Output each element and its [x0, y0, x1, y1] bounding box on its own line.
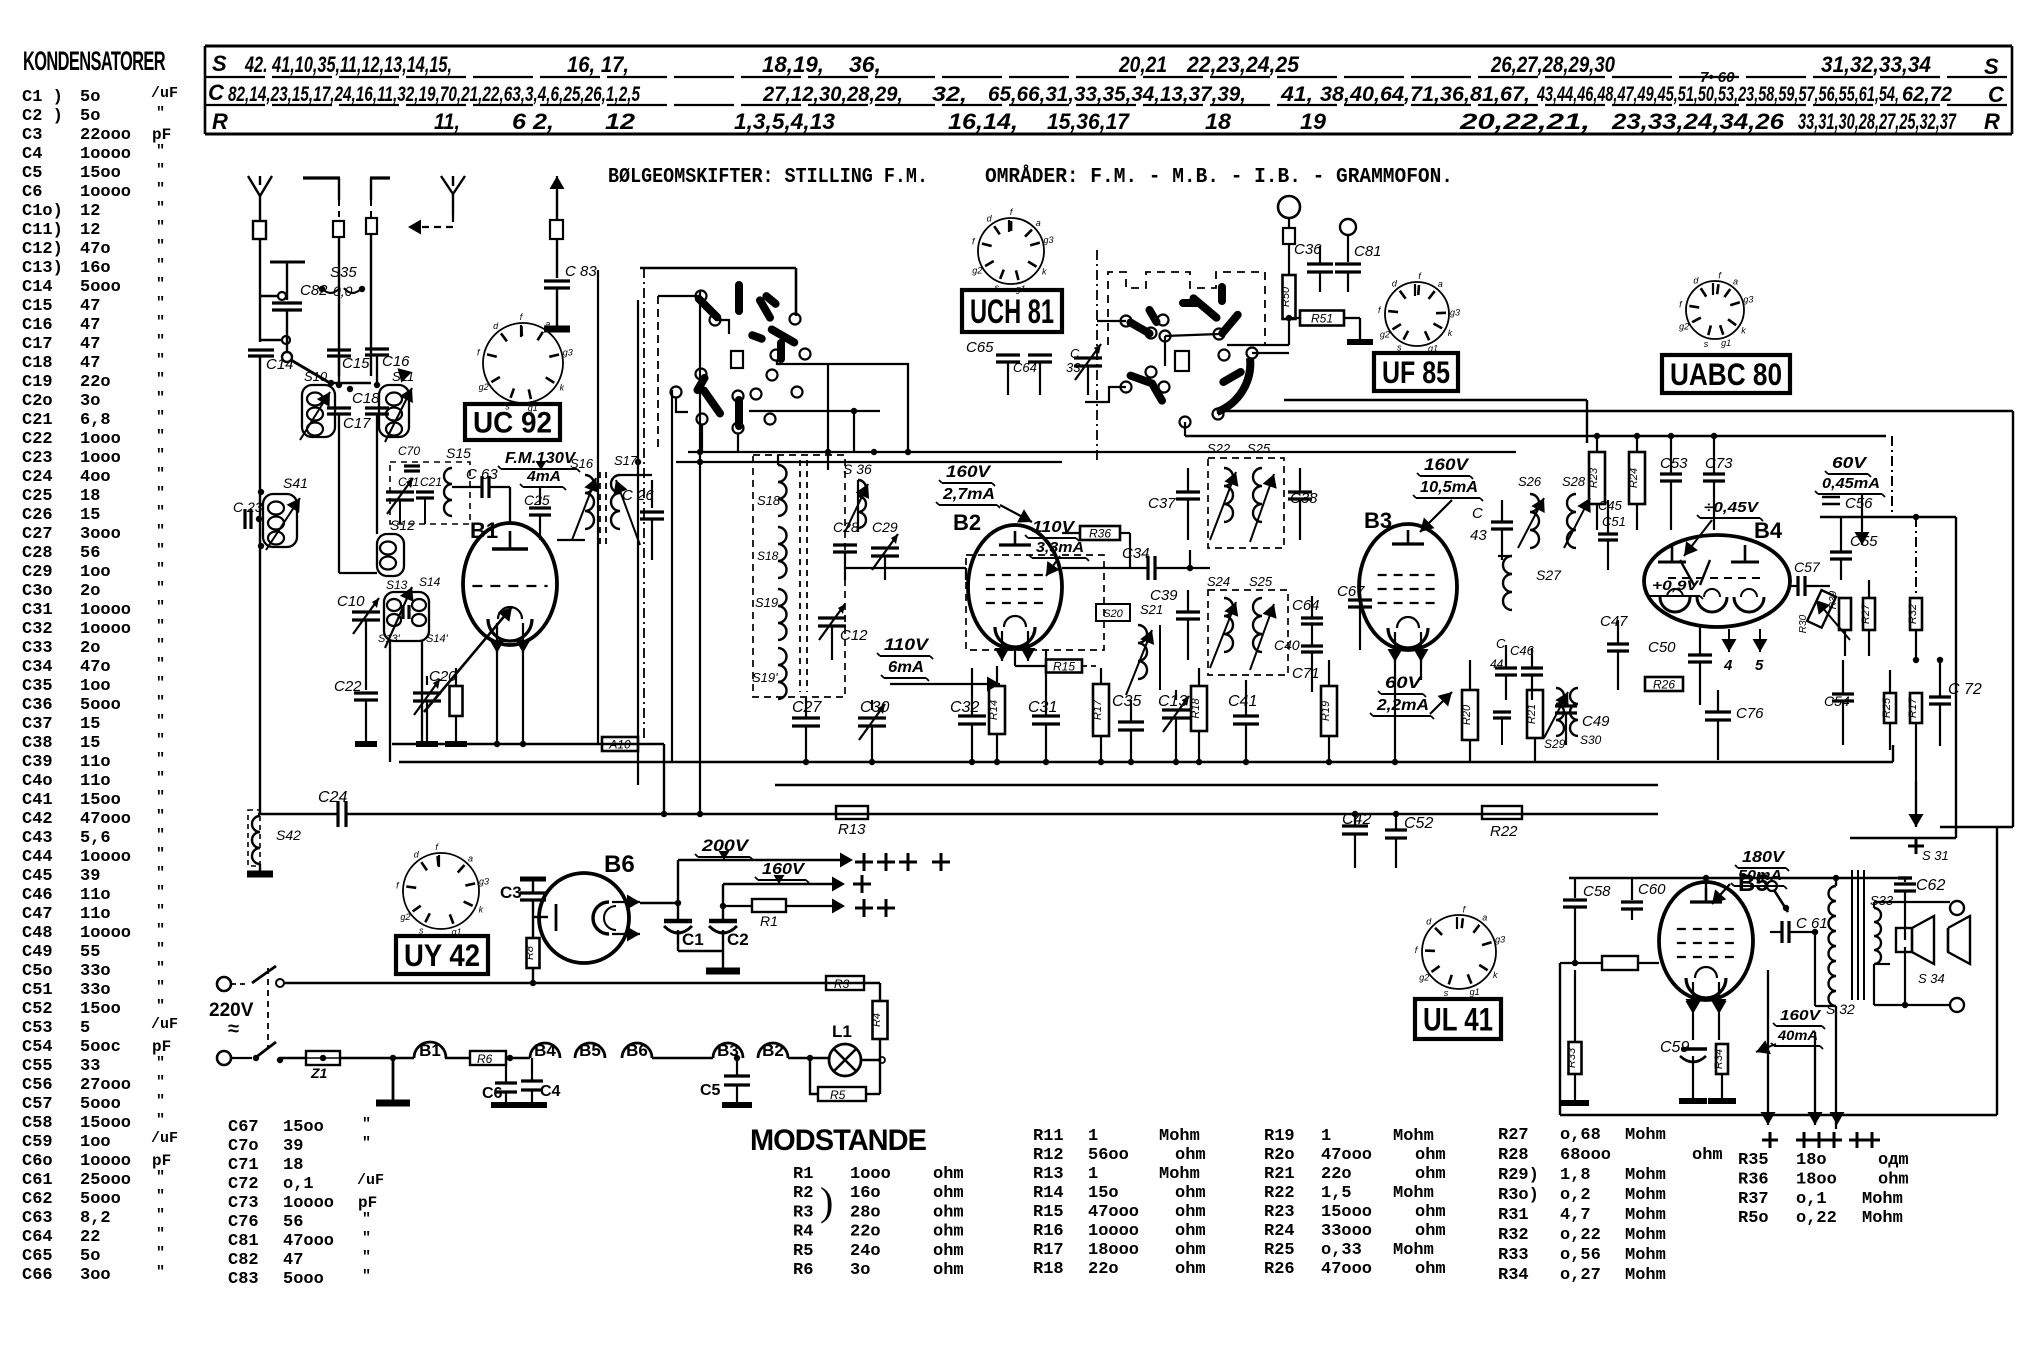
capacitor C52 — [1385, 814, 1433, 868]
svg-text:22: 22 — [80, 1228, 100, 1247]
resistor R17b vertical — [1907, 693, 1922, 781]
svg-text:Mohm: Mohm — [1159, 1165, 1200, 1184]
svg-text:C39: C39 — [22, 753, 53, 772]
svg-text:47: 47 — [80, 297, 100, 316]
svg-text:22o: 22o — [80, 373, 111, 392]
svg-text:": " — [156, 485, 165, 502]
annotation 60V 0,45mA — [1815, 455, 1885, 545]
svg-text:33o: 33o — [80, 962, 111, 981]
heater B2 bump — [758, 1043, 788, 1058]
svg-text:S42: S42 — [276, 827, 301, 843]
table row letters — [208, 51, 2005, 134]
coil S26 — [1518, 474, 1545, 548]
svg-text:Mohm: Mohm — [1393, 1241, 1434, 1260]
capacitor C31 — [1028, 649, 1060, 762]
svg-text:1oooo: 1oooo — [283, 1194, 334, 1213]
capacitor C15 — [327, 350, 370, 385]
svg-text:g3: g3 — [479, 876, 489, 886]
svg-text:": " — [156, 1093, 165, 1110]
svg-text:11o: 11o — [80, 753, 111, 772]
tube socket UF85 — [1385, 282, 1449, 346]
svg-text:15oo: 15oo — [283, 1118, 324, 1137]
svg-text:16o: 16o — [80, 259, 111, 278]
tube B6 (UY42) rectifier — [533, 851, 640, 963]
table row S numbers — [244, 52, 1931, 77]
svg-text:C21: C21 — [420, 475, 442, 489]
svg-text:R27: R27 — [1498, 1126, 1529, 1145]
svg-text:S25: S25 — [1249, 574, 1273, 589]
coil S36 — [843, 461, 872, 532]
capacitor C40 — [1274, 624, 1323, 653]
svg-text:47o: 47o — [80, 658, 111, 677]
svg-text:15: 15 — [80, 506, 100, 525]
svg-text:47: 47 — [80, 335, 100, 354]
svg-text:+0,9V: +0,9V — [1652, 577, 1700, 593]
svg-text:R22: R22 — [1490, 823, 1518, 840]
svg-text:1ooo: 1ooo — [80, 430, 121, 449]
svg-text:": " — [156, 295, 165, 312]
svg-text:": " — [156, 1188, 165, 1205]
capacitor C18 — [352, 382, 389, 534]
svg-text:C66: C66 — [22, 1266, 53, 1285]
svg-text:": " — [156, 1207, 165, 1224]
annotation 180V 50mA — [1712, 849, 1789, 904]
svg-text:C24: C24 — [318, 789, 347, 806]
svg-text:UCH 81: UCH 81 — [970, 293, 1054, 331]
table frame S/C/R rows — [205, 46, 2012, 134]
svg-text:OMRÅDER: F.M. - M.B. - I.B. -: OMRÅDER: F.M. - M.B. - I.B. - GRAMMOFON. — [985, 164, 1453, 189]
svg-text:C1: C1 — [682, 930, 704, 949]
capacitor C23 — [233, 499, 263, 529]
svg-text:": " — [156, 466, 165, 483]
svg-text:12: 12 — [80, 221, 100, 240]
svg-text:R17: R17 — [1907, 697, 1919, 718]
antenna connector 1 — [253, 221, 266, 239]
wire C14 to bus — [259, 357, 261, 814]
svg-text:60V: 60V — [1385, 673, 1423, 692]
svg-text:): ) — [820, 1179, 833, 1224]
svg-text:S 31: S 31 — [1922, 848, 1949, 863]
svg-text:47o: 47o — [80, 240, 111, 259]
svg-text:S21: S21 — [1140, 602, 1163, 617]
svg-text:47ooo: 47ooo — [80, 810, 131, 829]
svg-text:ohm: ohm — [933, 1242, 964, 1261]
svg-text:C1 ): C1 ) — [22, 88, 63, 107]
heater B6 bump — [622, 1043, 652, 1058]
svg-text:5ooo: 5ooo — [80, 278, 121, 297]
svg-text:S15: S15 — [446, 445, 471, 461]
svg-text:C29: C29 — [22, 563, 53, 582]
svg-text:g1: g1 — [1721, 338, 1731, 348]
table row R numbers — [434, 109, 1957, 134]
svg-text:": " — [156, 713, 165, 730]
tube socket UC92 — [483, 323, 563, 403]
resistor R26 box — [1645, 677, 1683, 691]
svg-text:C31: C31 — [1028, 699, 1057, 716]
phono input terminal — [1278, 196, 1300, 262]
svg-text:C63: C63 — [22, 1209, 53, 1228]
svg-text:ohm: ohm — [933, 1261, 964, 1280]
svg-text:40mA: 40mA — [1777, 1027, 1818, 1043]
svg-text:C 61: C 61 — [1796, 915, 1828, 932]
capacitor C81 schematic — [1335, 243, 1382, 292]
AVC dashed feed with + arrow — [1908, 517, 1924, 854]
svg-text:R3: R3 — [834, 977, 850, 991]
svg-text:47: 47 — [283, 1251, 303, 1270]
svg-text:g3: g3 — [1495, 935, 1505, 945]
svg-text:32,: 32, — [932, 83, 967, 106]
svg-text:47ooo: 47ooo — [283, 1232, 334, 1251]
svg-text:5ooo: 5ooo — [80, 1190, 121, 1209]
wire B6 anode to C1 node — [640, 900, 681, 906]
svg-text:o,22: o,22 — [1796, 1209, 1837, 1228]
svg-text:R2o: R2o — [1264, 1146, 1295, 1165]
resistor R32 vertical — [1907, 598, 1922, 663]
svg-text:": " — [156, 1226, 165, 1243]
svg-text:15ooo: 15ooo — [80, 1114, 131, 1133]
capacitor C63 series — [452, 466, 510, 524]
svg-text:1: 1 — [1088, 1127, 1098, 1146]
coil S11 — [379, 368, 414, 442]
svg-text:23,33,24,34,26: 23,33,24,34,26 — [1611, 109, 1785, 134]
wafer switch S2 cluster — [1085, 250, 1289, 460]
svg-text:38,40,64,71,36,81,67,: 38,40,64,71,36,81,67, — [1320, 83, 1530, 106]
svg-text:C72: C72 — [228, 1175, 259, 1194]
svg-text:R: R — [212, 109, 228, 134]
svg-text:ohm: ohm — [1175, 1260, 1206, 1279]
svg-text:C56: C56 — [1845, 495, 1873, 512]
svg-text:C: C — [1988, 82, 2005, 107]
svg-text:": " — [156, 257, 165, 274]
tube B1 (UC92) — [463, 523, 557, 645]
svg-text:": " — [156, 656, 165, 673]
svg-text:C7o: C7o — [228, 1137, 259, 1156]
svg-text:R34: R34 — [1498, 1266, 1529, 1285]
trimmer C29 — [871, 519, 899, 580]
volume potentiometer R39 — [1798, 590, 1850, 640]
wire R36 — [1062, 533, 1130, 568]
resistor R36 box — [1080, 526, 1120, 540]
svg-text:C23: C23 — [22, 449, 53, 468]
svg-text:4: 4 — [1723, 657, 1733, 674]
svg-text:5ooc: 5ooc — [80, 1038, 121, 1057]
svg-text:o,2: o,2 — [1560, 1186, 1591, 1205]
heater B3 bump — [713, 1043, 743, 1058]
svg-text:C43: C43 — [22, 829, 53, 848]
svg-text:": " — [156, 922, 165, 939]
svg-text:S14: S14 — [419, 575, 441, 589]
svg-text:": " — [156, 504, 165, 521]
svg-text:56: 56 — [283, 1213, 303, 1232]
svg-text:3o: 3o — [850, 1261, 870, 1280]
ground mid chain — [376, 1055, 410, 1103]
trimmer C30 — [858, 699, 889, 762]
text: capacitor value list C1-C66 — [22, 85, 178, 1285]
svg-text:39: 39 — [283, 1137, 303, 1156]
cathode parts C59 R36 — [1660, 992, 1736, 1101]
svg-text:ohm: ohm — [1175, 1146, 1206, 1165]
svg-text:C35: C35 — [1112, 693, 1141, 710]
svg-text:/uF: /uF — [151, 1130, 178, 1147]
svg-text:C65: C65 — [22, 1247, 53, 1266]
svg-text:15oo: 15oo — [80, 1000, 121, 1019]
resistor R13 on bus — [836, 806, 868, 838]
svg-text:22o: 22o — [850, 1223, 881, 1242]
svg-text:3ooo: 3ooo — [80, 525, 121, 544]
capacitor C45 C51 — [1598, 498, 1626, 570]
svg-text:1oo: 1oo — [80, 563, 111, 582]
svg-text:": " — [156, 428, 165, 445]
svg-text:41,: 41, — [1280, 83, 1313, 106]
svg-text:o,22: o,22 — [1560, 1226, 1601, 1245]
svg-text:C70: C70 — [398, 444, 420, 458]
plus marks +++ — [855, 853, 950, 871]
svg-text:C 23: C 23 — [233, 499, 263, 515]
svg-text:C18: C18 — [352, 390, 380, 407]
svg-text:24o: 24o — [850, 1242, 881, 1261]
svg-text:C3: C3 — [500, 883, 522, 902]
svg-text:": " — [362, 1249, 371, 1266]
svg-text:C36: C36 — [22, 696, 53, 715]
svg-text:26,27,28,29,30: 26,27,28,29,30 — [1490, 52, 1615, 77]
svg-text:≈: ≈ — [228, 1018, 239, 1040]
svg-text:S25: S25 — [1247, 441, 1271, 456]
capacitor C64b — [1013, 355, 1052, 395]
svg-text:160V: 160V — [1780, 1007, 1822, 1024]
capacitor C43 — [1470, 500, 1513, 560]
svg-text:R26: R26 — [1264, 1260, 1295, 1279]
svg-text:k: k — [560, 383, 565, 393]
capacitor C1 electrolytic — [664, 903, 704, 951]
capacitor C56 — [1822, 495, 1873, 512]
svg-text:7• 60: 7• 60 — [1700, 69, 1735, 86]
svg-text:R31: R31 — [1498, 1206, 1529, 1225]
resistor R4 vertical — [871, 1001, 888, 1094]
svg-text:a: a — [1482, 913, 1487, 923]
svg-text:": " — [156, 941, 165, 958]
svg-text:22,23,24,25: 22,23,24,25 — [1186, 52, 1300, 77]
svg-text:C: C — [1496, 636, 1506, 651]
svg-text:47ooo: 47ooo — [1088, 1203, 1139, 1222]
capacitor C4 — [517, 1058, 561, 1105]
capacitor C48 — [1493, 712, 1511, 745]
svg-text:C55: C55 — [22, 1057, 53, 1076]
main bus with C24 — [258, 789, 1658, 827]
svg-text:R8: R8 — [524, 945, 536, 960]
svg-text:C37: C37 — [22, 715, 53, 734]
resistor R5 bypass — [810, 1058, 880, 1102]
svg-text:15oo: 15oo — [80, 164, 121, 183]
svg-text:C16: C16 — [382, 353, 410, 370]
annotation 60V 2,2mA — [1370, 673, 1452, 719]
svg-text:4,7: 4,7 — [1560, 1206, 1591, 1225]
resistor R17 vertical — [1092, 668, 1109, 762]
text: resistor table R11-R18 — [1033, 1127, 1206, 1279]
svg-text:1oooo: 1oooo — [80, 848, 131, 867]
trimmer C10 and capacitor C22 column — [334, 593, 380, 744]
svg-text:C25: C25 — [22, 487, 53, 506]
tone switch and C61 — [1767, 881, 1836, 1006]
svg-text:C46: C46 — [22, 886, 53, 905]
svg-text:C65: C65 — [966, 339, 994, 356]
anode top line B5 — [1569, 875, 1905, 888]
svg-text:1,5: 1,5 — [1321, 1184, 1352, 1203]
svg-text:5: 5 — [1755, 657, 1764, 674]
svg-text:": " — [156, 789, 165, 806]
coils S13 S14 — [378, 575, 449, 762]
svg-text:": " — [156, 1245, 165, 1262]
svg-text:": " — [156, 219, 165, 236]
resistor R8 vertical — [524, 900, 540, 986]
svg-text:C57: C57 — [22, 1095, 53, 1114]
svg-text:180V: 180V — [1742, 849, 1785, 866]
svg-text:Mohm: Mohm — [1625, 1166, 1666, 1185]
svg-text:C33: C33 — [22, 639, 53, 658]
svg-text:R3: R3 — [793, 1203, 813, 1222]
svg-text:22o: 22o — [1088, 1260, 1119, 1279]
capacitor C62 — [1894, 877, 1945, 940]
svg-text:B1: B1 — [419, 1041, 441, 1060]
svg-text:C30: C30 — [860, 699, 889, 716]
svg-text:5o: 5o — [80, 88, 100, 107]
svg-text:ohm: ohm — [1415, 1203, 1446, 1222]
coil S20 S21 — [1096, 602, 1163, 695]
svg-text:6mA: 6mA — [888, 659, 924, 676]
svg-text:a: a — [1733, 277, 1738, 287]
capacitor C37 — [1148, 468, 1200, 540]
svg-text:o,56: o,56 — [1560, 1246, 1601, 1265]
svg-text:ohm: ohm — [933, 1223, 964, 1242]
svg-text:R6: R6 — [477, 1052, 493, 1066]
svg-text:": " — [156, 808, 165, 825]
svg-text:pF: pF — [152, 1152, 171, 1170]
svg-text:UF 85: UF 85 — [1382, 355, 1450, 390]
wire stub with contact circle — [261, 336, 290, 344]
svg-text:C 83: C 83 — [565, 263, 597, 280]
wire transformer out — [620, 475, 652, 480]
mains terminal top — [217, 977, 231, 991]
coils S29 S30 — [1544, 688, 1602, 751]
svg-text:": " — [156, 675, 165, 692]
svg-text:R14: R14 — [1033, 1184, 1064, 1203]
annotation 160V 40mA — [1756, 1007, 1825, 1054]
svg-text:B5: B5 — [579, 1041, 601, 1060]
svg-text:": " — [156, 523, 165, 540]
svg-text:47ooo: 47ooo — [1321, 1260, 1372, 1279]
bus junction dots — [494, 433, 1717, 817]
tube B5 (UL41) — [1659, 882, 1753, 1000]
svg-text:33o: 33o — [80, 981, 111, 1000]
svg-text:g2: g2 — [479, 382, 489, 392]
svg-text:R2: R2 — [793, 1184, 813, 1203]
svg-text:S26: S26 — [1518, 474, 1542, 489]
svg-text:": " — [156, 1074, 165, 1091]
wire cluster2 outputs — [1185, 411, 1218, 436]
svg-text:A10: A10 — [608, 738, 631, 752]
160V feed line — [723, 875, 871, 893]
svg-text:o,1: o,1 — [1796, 1190, 1827, 1209]
svg-text:22ooo: 22ooo — [80, 126, 131, 145]
resistor R25 vertical — [1881, 670, 1896, 750]
svg-text:C10: C10 — [337, 593, 365, 610]
svg-text:R33: R33 — [1498, 1246, 1529, 1265]
svg-text:65,66,31,33,35,34,13,37,39,: 65,66,31,33,35,34,13,37,39, — [988, 83, 1246, 106]
svg-text:6 2,: 6 2, — [512, 109, 554, 134]
resistor R24 vertical — [1628, 436, 1645, 530]
annotation 160V 2,7mA — [936, 462, 1032, 523]
svg-text:S16: S16 — [570, 456, 594, 471]
svg-text:": " — [156, 770, 165, 787]
svg-text:R32: R32 — [1907, 604, 1919, 624]
capacitor C14 — [248, 350, 294, 373]
svg-text:g2: g2 — [400, 912, 410, 922]
capacitor C55 — [1830, 517, 1878, 580]
svg-text:C: C — [208, 80, 225, 105]
svg-text:C6o: C6o — [22, 1152, 53, 1171]
svg-text:R19: R19 — [1264, 1127, 1295, 1146]
svg-text:UL 41: UL 41 — [1423, 1000, 1493, 1037]
svg-text:KONDENSATORER: KONDENSATORER — [23, 46, 165, 76]
svg-text:C26: C26 — [22, 506, 53, 525]
svg-text:R25: R25 — [1881, 697, 1893, 718]
resistor R33 vertical — [1561, 970, 1589, 1103]
coil S41 and switch — [258, 475, 308, 550]
svg-text:g3: g3 — [1043, 235, 1053, 245]
label box UCH81 — [962, 290, 1062, 332]
capacitor C41 — [1228, 680, 1259, 762]
svg-text:R51: R51 — [1311, 312, 1333, 326]
svg-text:S20: S20 — [1103, 608, 1123, 620]
svg-text:R1: R1 — [760, 913, 778, 929]
resistor R18 vertical — [1190, 668, 1207, 762]
svg-text:R4: R4 — [793, 1223, 813, 1242]
left ground bus — [355, 744, 664, 814]
wire small link — [260, 292, 286, 300]
svg-text:15: 15 — [80, 715, 100, 734]
svg-text:B4: B4 — [1754, 518, 1783, 543]
svg-text:B3: B3 — [1364, 508, 1392, 533]
svg-text:C32: C32 — [950, 699, 979, 716]
svg-text:R28: R28 — [1498, 1146, 1529, 1165]
svg-text:": " — [156, 827, 165, 844]
trimmer C13 — [1158, 690, 1190, 762]
svg-text:": " — [156, 542, 165, 559]
svg-text:1oooo: 1oooo — [80, 601, 131, 620]
svg-text:S: S — [212, 51, 227, 76]
svg-text:R29): R29) — [1498, 1166, 1539, 1185]
annotation 110V 3,3mA — [1025, 519, 1089, 576]
svg-text:Mohm: Mohm — [1625, 1226, 1666, 1245]
annotation 200V — [695, 836, 753, 860]
svg-text:R11: R11 — [1033, 1127, 1064, 1146]
resistor R31 vertical — [1839, 598, 1851, 656]
svg-text:C37: C37 — [1148, 495, 1176, 512]
svg-text:C40: C40 — [1274, 637, 1300, 653]
svg-text:R17: R17 — [1033, 1241, 1064, 1260]
svg-text:C2: C2 — [727, 930, 749, 949]
fuse Z1 — [306, 1051, 340, 1081]
capacitor C6 — [482, 1058, 521, 1105]
svg-text:C47: C47 — [1600, 613, 1628, 630]
svg-text:6,8: 6,8 — [80, 411, 111, 430]
svg-text:18o: 18o — [1796, 1151, 1827, 1170]
svg-text:C35: C35 — [22, 677, 53, 696]
dipole connector B — [366, 200, 377, 234]
svg-text:k: k — [479, 905, 484, 915]
resistor R21 vertical — [1526, 690, 1543, 762]
svg-text:C3: C3 — [22, 126, 42, 145]
svg-text:1oo: 1oo — [80, 677, 111, 696]
